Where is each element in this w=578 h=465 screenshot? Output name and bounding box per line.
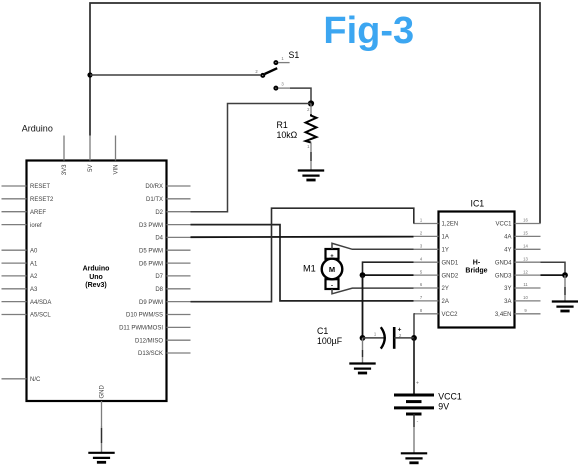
svg-text:14: 14 [523, 244, 528, 249]
ground (below R1) [298, 171, 324, 181]
battery VCC1 [394, 395, 434, 414]
arduino U1 body [27, 161, 167, 402]
IC1 pin 8 VCC2 [414, 308, 459, 318]
ground (below C1) [349, 364, 375, 374]
svg-text:GND3: GND3 [495, 273, 512, 279]
arduino pin A2 [2, 274, 39, 280]
Arduino module label [22, 124, 53, 134]
battery VCC1 value label [438, 392, 462, 412]
arduino pin ioref [2, 223, 43, 229]
arduino pin N/C [2, 377, 42, 383]
svg-text:3Y: 3Y [504, 286, 511, 292]
svg-text:A5/SCL: A5/SCL [30, 313, 51, 319]
svg-text:D6 PWM: D6 PWM [139, 261, 163, 267]
wire motor + to 1Y pin 3 [332, 243, 414, 249]
node A junction (switch/R1/D2) [308, 100, 314, 106]
arduino pin D4 [155, 236, 190, 242]
title Fig-3 [323, 10, 414, 52]
arduino pin D1/TX [146, 197, 191, 203]
svg-text:1Y: 1Y [442, 248, 449, 254]
svg-text:D13/SCK: D13/SCK [138, 351, 163, 357]
switch S1 pin 3 [274, 82, 290, 90]
switch S1 pin 1 [274, 56, 289, 64]
svg-text:GND2: GND2 [442, 273, 459, 279]
svg-text:D12/MISO: D12/MISO [135, 338, 163, 344]
svg-text:D10 PWM/SS: D10 PWM/SS [126, 313, 163, 319]
wire D3 PWM to 2A pin 7 [191, 225, 414, 301]
svg-text:3V3: 3V3 [62, 164, 68, 175]
svg-text:16: 16 [523, 218, 528, 223]
IC1 pin 9 3,4EN [495, 308, 541, 318]
ground (below battery VCC1) [401, 453, 427, 463]
wire D9 PWM to 1,2EN pin 1 [191, 208, 414, 302]
svg-text:S1: S1 [289, 50, 300, 60]
svg-text:D7: D7 [155, 274, 163, 280]
IC1 pin 5 GND2 [414, 269, 459, 279]
switch S1 pin 2 (common) [255, 69, 264, 77]
svg-text:R1: R1 [277, 120, 288, 130]
arduino pin RESET2 [2, 197, 55, 203]
IC1 pin 1 1,2EN [414, 218, 459, 228]
arduino pin D13/SCK [138, 351, 191, 357]
ground (below arduino) [88, 453, 114, 463]
svg-text:Arduino: Arduino [22, 124, 53, 134]
svg-text:GND4: GND4 [495, 260, 512, 266]
svg-text:D2: D2 [155, 210, 163, 216]
motor M1 label [303, 264, 316, 274]
svg-text:4A: 4A [504, 235, 511, 241]
IC1 pin 6 2Y [414, 282, 449, 292]
IC1 label [471, 199, 485, 209]
IC1 pin 13 GND4 [495, 256, 541, 266]
arduino pin D8 [155, 287, 190, 293]
svg-text:GND: GND [100, 385, 106, 399]
IC1 pin 7 2A [414, 295, 449, 305]
IC1 pin 14 4Y [504, 244, 540, 254]
svg-text:4Y: 4Y [504, 248, 511, 254]
wire D4 to 1A pin 2 [191, 236, 414, 239]
svg-text:1A: 1A [442, 235, 449, 241]
svg-text:5V: 5V [88, 165, 94, 172]
node GND junction at GND2 [360, 272, 366, 278]
ground (right of IC1) [552, 302, 578, 312]
arduino pin VIN [114, 136, 120, 175]
svg-text:11: 11 [523, 282, 528, 287]
svg-text:-: - [331, 283, 333, 289]
svg-text:D3 PWM: D3 PWM [139, 223, 163, 229]
svg-text:D4: D4 [155, 236, 163, 242]
svg-text:10kΩ: 10kΩ [277, 130, 298, 140]
svg-text:ioref: ioref [30, 223, 42, 229]
svg-text:AREF: AREF [30, 210, 46, 216]
IC1 pin 2 1A [414, 231, 449, 241]
arduino pin D2 [155, 210, 190, 216]
svg-text:RESET2: RESET2 [30, 197, 54, 203]
wire node A to D2 [191, 104, 312, 212]
svg-text:Fig-3: Fig-3 [323, 10, 414, 52]
arduino pin D7 [155, 274, 190, 280]
wire GND1 pin 4 to GND net [363, 262, 414, 275]
svg-text:A1: A1 [30, 261, 38, 267]
svg-text:Bridge: Bridge [465, 268, 487, 275]
arduino pin D11 PWM/MOSI [119, 326, 190, 332]
arduino pin D6 PWM [139, 261, 191, 267]
capacitor C1 value label [317, 326, 343, 346]
svg-text:H-: H- [473, 259, 481, 266]
IC1 pin 12 GND3 [495, 269, 541, 279]
IC1 pin 10 3A [504, 295, 540, 305]
arduino pin A4/SDA [2, 300, 52, 306]
svg-text:VCC1: VCC1 [438, 392, 462, 402]
svg-text:3,4EN: 3,4EN [495, 312, 512, 318]
svg-text:A4/SDA: A4/SDA [30, 300, 51, 306]
wire motor - to 2Y pin 6 [332, 288, 414, 294]
svg-text:15: 15 [523, 231, 528, 236]
node battery + junction [411, 335, 417, 341]
svg-text:Arduino: Arduino [83, 266, 110, 273]
wire battery - to ground [414, 414, 419, 453]
svg-text:+: + [416, 381, 419, 387]
capacitor C1 [374, 327, 402, 349]
svg-text:13: 13 [523, 256, 528, 261]
arduino pin 5V [88, 136, 94, 172]
svg-text:2Y: 2Y [442, 286, 449, 292]
arduino pin D9 PWM [139, 300, 191, 306]
wire switch pin3 to node A [290, 88, 311, 103]
svg-text:1,2EN: 1,2EN [442, 222, 459, 228]
switch S1 label [289, 50, 300, 60]
arduino pin A1 [2, 261, 39, 267]
wire VCC2 pin 8 to battery + [413, 314, 416, 338]
svg-text:A0: A0 [30, 248, 38, 254]
svg-text:D0/RX: D0/RX [145, 184, 163, 190]
svg-text:D5 PWM: D5 PWM [139, 248, 163, 254]
arduino pin D12/MISO [135, 338, 191, 344]
svg-text:(Rev3): (Rev3) [85, 282, 106, 289]
arduino pin D5 PWM [139, 248, 191, 254]
arduino pin 3V3 [62, 136, 68, 176]
wire junction down to battery [414, 338, 419, 395]
IC1 pin 16 VCC1 [495, 218, 540, 228]
op-amp U-IC1 body (H-Bridge) [439, 212, 515, 328]
arduino pin GND [100, 385, 106, 427]
IC1 pin 4 GND1 [414, 256, 459, 266]
resistor R1 value label [277, 120, 298, 140]
svg-text:C1: C1 [317, 326, 328, 336]
svg-text:3A: 3A [504, 299, 511, 305]
svg-text:A2: A2 [30, 274, 38, 280]
svg-text:2A: 2A [442, 299, 449, 305]
resistor R1 [306, 104, 317, 171]
arduino pin D3 PWM [139, 223, 191, 229]
arduino pin A5/SCL [2, 313, 52, 319]
IC1 pin 15 4A [504, 231, 540, 241]
svg-text:D9 PWM: D9 PWM [139, 300, 163, 306]
svg-text:Uno: Uno [89, 274, 103, 281]
svg-text:VCC1: VCC1 [495, 222, 512, 228]
arduino pin D10 PWM/SS [126, 313, 191, 319]
wire 5V net (5V pin up, across top, down to VCC1 pin 16) [90, 3, 540, 224]
IC1 pin 11 3Y [504, 282, 540, 292]
svg-text:GND1: GND1 [442, 260, 459, 266]
svg-text:IC1: IC1 [471, 199, 485, 209]
wire GND2 pin 5 to GND net [363, 274, 414, 276]
svg-text:M1: M1 [303, 264, 316, 274]
arduino pin AREF [2, 210, 47, 216]
svg-text:N/C: N/C [30, 377, 41, 383]
motor M1 [322, 249, 343, 289]
wire GND net to ground [362, 338, 364, 364]
IC1 pin 3 1Y [414, 244, 449, 254]
arduino pin A3 [2, 287, 39, 293]
wire 5V to switch common [90, 74, 260, 76]
switch S1 lever [265, 68, 278, 74]
node right GND junction [562, 272, 568, 278]
arduino pin D0/RX [145, 184, 190, 190]
wire C1 positive plate to junction [394, 337, 414, 339]
arduino pin RESET [2, 184, 51, 190]
svg-text:12: 12 [523, 269, 528, 274]
node 5V junction [87, 72, 92, 77]
wire GND net down to C1 [362, 275, 364, 338]
svg-text:100µF: 100µF [317, 336, 343, 346]
wire GND3 pin 12 to right GND net [541, 274, 566, 276]
svg-text:M: M [329, 265, 335, 274]
wire arduino GND to ground [101, 426, 103, 453]
svg-text:A3: A3 [30, 287, 38, 293]
svg-text:VCC2: VCC2 [442, 312, 459, 318]
node C1 negative junction [360, 335, 366, 341]
svg-text:D11 PWM/MOSI: D11 PWM/MOSI [119, 326, 163, 332]
arduino pin A0 [2, 248, 39, 254]
wire right GND net to ground [564, 275, 566, 301]
svg-text:D8: D8 [155, 287, 163, 293]
svg-text:9V: 9V [438, 402, 449, 412]
wire GND4 pin 13 to right GND net [541, 262, 566, 275]
svg-text:10: 10 [523, 295, 528, 300]
wire junction to C1 negative plate [363, 337, 384, 339]
svg-text:D1/TX: D1/TX [146, 197, 163, 203]
svg-text:VIN: VIN [114, 165, 120, 175]
svg-text:RESET: RESET [30, 184, 50, 190]
